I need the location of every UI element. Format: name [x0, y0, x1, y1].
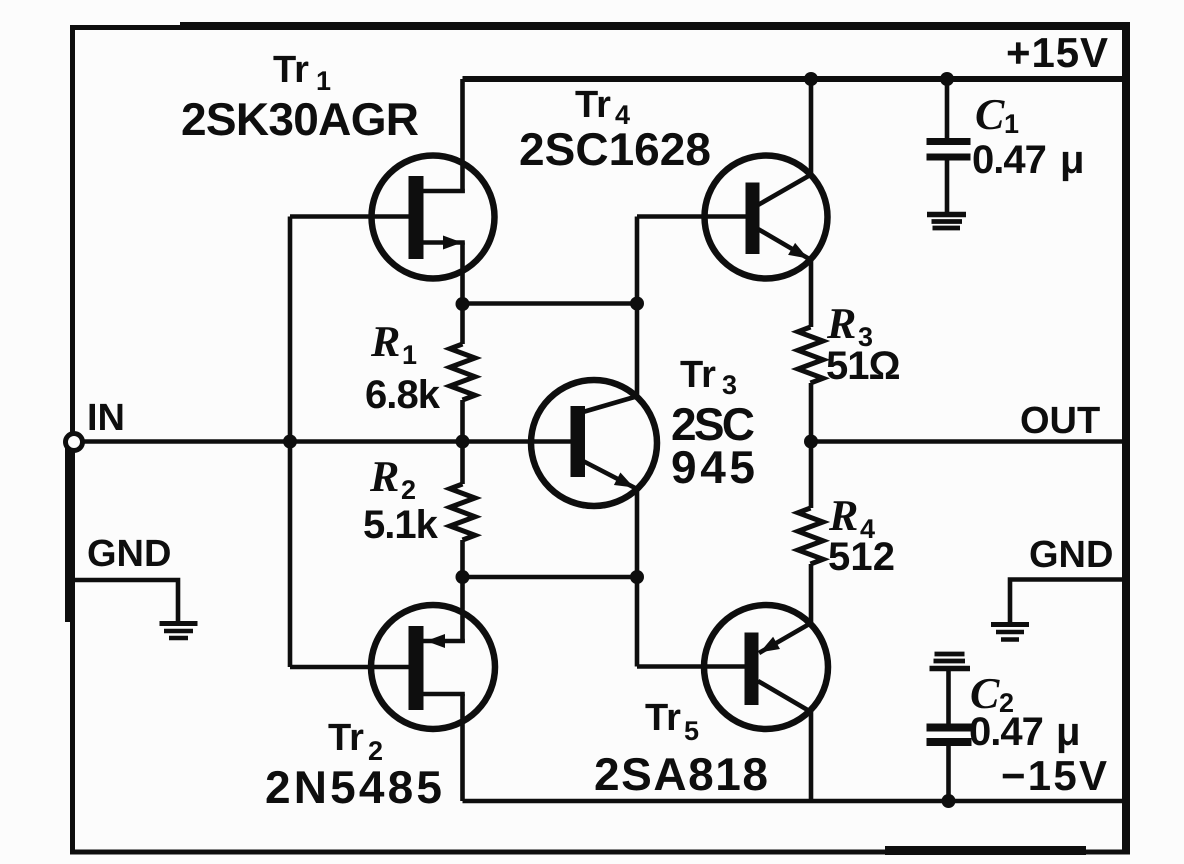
wire +15V rail — [463, 76, 1127, 82]
node +15V rail / C1 — [940, 72, 954, 86]
svg-text:1: 1 — [316, 66, 331, 96]
svg-text:−15V: −15V — [1001, 752, 1107, 799]
ground right — [991, 625, 1029, 640]
svg-text:5: 5 — [684, 716, 699, 746]
wire mid bus lower segment — [635, 489, 640, 667]
wire Tr5 collector to -15V — [809, 712, 814, 801]
svg-text:C: C — [975, 90, 1005, 139]
wire Tr1 drain to +15V — [460, 79, 465, 193]
ground C2 (inverted) — [930, 654, 971, 669]
node mid bus upper junction — [630, 297, 644, 311]
svg-text:2SK30AGR: 2SK30AGR — [181, 93, 419, 145]
svg-text:GND: GND — [87, 533, 171, 575]
wire R1-R2 link — [460, 400, 465, 484]
svg-text:0.47: 0.47 — [972, 138, 1046, 182]
transistor Q Tr4 2SC1628 — [637, 156, 828, 279]
resistor R2 — [450, 484, 475, 540]
svg-text:OUT: OUT — [1020, 400, 1100, 442]
wire GND left tap — [74, 580, 178, 622]
node -15V rail / C2 — [942, 794, 956, 808]
wire gate bus vertical — [288, 217, 293, 668]
wire GND right tap — [1010, 580, 1124, 624]
svg-text:IN: IN — [87, 397, 125, 439]
resistor R3 — [798, 327, 823, 383]
wire cross link upper — [463, 301, 638, 306]
wire R3 bottom to OUT node — [809, 383, 814, 508]
node mid bus lower junction — [630, 570, 644, 584]
transistor Q Tr5 2SA818 — [637, 605, 828, 729]
resistor R1 — [450, 344, 475, 400]
wire R4 bottom to Tr5 emitter — [809, 564, 814, 624]
node R2 bottom junction — [456, 570, 470, 584]
svg-text:μ: μ — [1056, 710, 1079, 754]
capacitor C1 — [927, 79, 971, 214]
wire -15V rail — [463, 799, 1127, 804]
svg-text:R: R — [826, 299, 856, 348]
node OUT junction — [804, 435, 818, 449]
transistor Q Tr3 2SC945 — [531, 380, 657, 506]
wire Tr4 collector to +15V — [809, 79, 814, 175]
wire cross link lower — [463, 575, 638, 580]
svg-text:+15V: +15V — [1006, 29, 1108, 76]
svg-text:μ: μ — [1060, 138, 1083, 182]
svg-text:2SC1628: 2SC1628 — [519, 123, 711, 175]
svg-text:1: 1 — [402, 340, 417, 370]
svg-text:Tr: Tr — [645, 697, 681, 739]
capacitor C2 — [927, 669, 972, 802]
node Tr1 source junction — [456, 297, 470, 311]
svg-text:6.8k: 6.8k — [365, 373, 441, 417]
svg-text:1: 1 — [1004, 109, 1019, 139]
svg-text:945: 945 — [671, 441, 755, 493]
svg-text:GND: GND — [1029, 534, 1113, 576]
ground left — [160, 624, 198, 639]
svg-text:Tr: Tr — [273, 49, 309, 91]
svg-text:Tr: Tr — [575, 84, 611, 126]
resistor R4 — [798, 508, 823, 564]
svg-text:512: 512 — [828, 535, 894, 579]
node +15V rail / Tr4 — [804, 72, 818, 86]
wire IN horizontal — [83, 439, 571, 444]
svg-text:2: 2 — [401, 475, 416, 505]
transistor Q Tr1 2SK30AGR — [290, 156, 495, 306]
svg-text:Tr: Tr — [680, 354, 716, 396]
svg-text:51Ω: 51Ω — [826, 344, 900, 388]
svg-text:Tr: Tr — [328, 717, 364, 759]
svg-text:R: R — [369, 452, 399, 501]
wire OUT — [811, 439, 1126, 444]
svg-text:3: 3 — [722, 370, 737, 400]
node junction IN/gate bus — [283, 435, 297, 449]
svg-text:5.1k: 5.1k — [363, 503, 439, 547]
ground C1 — [927, 215, 966, 229]
transistor Q Tr2 2N5485 — [290, 605, 495, 801]
svg-text:R: R — [370, 317, 400, 366]
node IN terminal — [66, 434, 83, 451]
node IN junction on divider — [456, 435, 470, 449]
wire Tr4 emitter to R3 — [809, 260, 814, 327]
svg-text:R: R — [828, 491, 858, 540]
wire R1 top lead — [460, 304, 465, 344]
wire R2 bottom lead — [460, 540, 465, 643]
wire mid bus upper segment — [635, 217, 640, 398]
svg-text:0.47: 0.47 — [969, 710, 1043, 754]
